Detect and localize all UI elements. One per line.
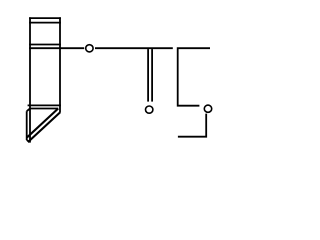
triangle hypotenuse inner: [27, 109, 59, 138]
middle rung upper: [29, 44, 61, 46]
left vertical long bond: [29, 17, 31, 142]
top ring double bond inner line: [29, 22, 61, 24]
ester O atom: [86, 45, 93, 52]
triangle top inner double line: [30, 108, 58, 110]
right vertical bond: [59, 17, 61, 112]
middle rung lower / bond to ester O: [29, 47, 84, 49]
triangle top outer edge: [28, 104, 61, 106]
triangle join stub bottom: [27, 140, 30, 142]
carbonyl O atom: [146, 106, 153, 113]
bond O to carbonyl C: [95, 47, 173, 49]
C=O double bond line 1: [147, 49, 149, 102]
triangle left inner double line: [26, 111, 28, 140]
triangle join stub top-left: [27, 109, 30, 112]
top ring edge: [29, 17, 61, 19]
ring O down bond + bottom edge: [178, 114, 206, 137]
ring O atom: [204, 105, 211, 112]
right ring top + left edge + bottom bond to ring O: [178, 48, 210, 105]
triangle hypotenuse outer: [28, 112, 60, 142]
C=O double bond line 2: [151, 49, 153, 102]
